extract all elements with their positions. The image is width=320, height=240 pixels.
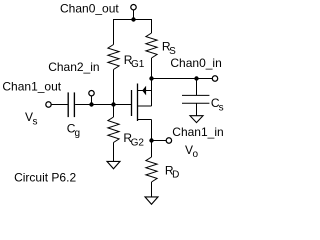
svg-text:Chan1_out: Chan1_out xyxy=(2,80,61,94)
svg-text:Chan0_out: Chan0_out xyxy=(60,2,119,16)
svg-text:Chan1_in: Chan1_in xyxy=(172,125,223,139)
svg-text:Chan2_in: Chan2_in xyxy=(48,60,99,74)
svg-text:Chan0_in: Chan0_in xyxy=(170,56,221,70)
svg-text:Circuit P6.2: Circuit P6.2 xyxy=(14,170,76,184)
